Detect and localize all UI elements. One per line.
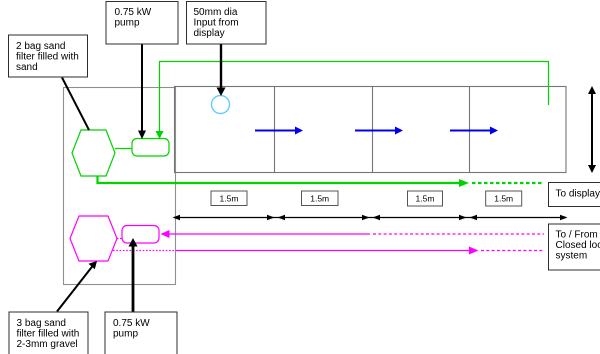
tank (4-cell flume): [175, 87, 567, 173]
svg-text:sand: sand: [16, 62, 38, 73]
wire: dotted connector filter F2 to pump P2: [117, 238, 122, 240]
svg-text:1.5m: 1.5m: [494, 194, 513, 204]
dimension arrowhead pair at 371: [362, 215, 370, 221]
svg-text:1.5m: 1.5m: [220, 194, 239, 204]
tank divider 2: [372, 87, 374, 173]
sand filter F2 (hexagon): [70, 216, 117, 261]
wire: magenta supply pipe from closed loop: [168, 233, 370, 235]
label box: 3 bag sand filter: [9, 312, 88, 354]
dimension arrowhead pair at 468: [459, 215, 467, 221]
wire: magenta dotted pipe from filter F2: [113, 250, 176, 252]
svg-text:filter filled with: filter filled with: [17, 329, 80, 340]
dimension label box 4: [486, 191, 522, 206]
pump P2: [122, 226, 159, 244]
callout pointer: 3 bag sand filter: [57, 266, 93, 312]
dimension label box 3: [408, 191, 443, 206]
callout pointer: 2 bag sand filter: [62, 78, 89, 131]
svg-text:0.75 kW: 0.75 kW: [115, 7, 152, 18]
wire: magenta dashed return continuation: [481, 250, 543, 252]
svg-text:To / From: To / From: [556, 230, 598, 241]
green arrowhead to display: [459, 179, 469, 187]
svg-text:Closed loop: Closed loop: [556, 240, 600, 251]
label box: 0.75 kW pump top: [106, 2, 178, 45]
svg-text:1.5m: 1.5m: [416, 194, 435, 204]
svg-text:3 bag sand: 3 bag sand: [17, 318, 67, 329]
tank divider 1: [274, 87, 276, 173]
callout pointer: 50mm dia input: [220, 44, 222, 88]
label box: 50mm dia input from display: [187, 2, 267, 45]
wire: green delivery pipe to display: [98, 176, 461, 183]
sand filter F1 (hexagon): [72, 130, 115, 176]
label box: To / From closed loop system: [549, 224, 600, 270]
svg-text:pump: pump: [115, 18, 140, 29]
tank divider 3: [469, 87, 471, 173]
inlet port circle: [212, 96, 230, 114]
svg-text:50mm dia: 50mm dia: [194, 7, 238, 18]
dimension label box 1: [211, 191, 247, 206]
svg-text:filter filled with: filter filled with: [16, 52, 79, 63]
svg-text:1.5m: 1.5m: [310, 194, 329, 204]
flow arrow 1: [255, 127, 303, 135]
svg-text:pump: pump: [113, 329, 138, 340]
callout pointer: 0.75 kW pump bottom: [132, 245, 135, 312]
svg-text:2 bag sand: 2 bag sand: [16, 41, 66, 52]
pump P1: [132, 139, 169, 157]
wire: magenta dashed supply continuation: [373, 233, 544, 235]
magenta arrowhead to closed loop: [469, 247, 479, 255]
svg-text:Input from: Input from: [194, 18, 239, 29]
flow arrow 3: [450, 127, 498, 135]
flow arrow 2: [355, 127, 403, 135]
depth double arrow: [588, 86, 596, 173]
magenta arrowhead into pump P2: [161, 230, 170, 238]
wire: magenta return pipe to closed loop: [176, 250, 470, 252]
callout pointer: 0.75 kW pump top: [141, 44, 143, 131]
green arrowhead into pump P1: [156, 131, 164, 139]
svg-text:2-3mm gravel: 2-3mm gravel: [17, 339, 78, 350]
dimension line: [174, 217, 566, 219]
wire: green dashed continuation to display: [472, 182, 543, 184]
label box: To display: [549, 183, 600, 207]
label box: 0.75 kW pump bottom: [105, 312, 177, 354]
svg-text:display: display: [194, 28, 225, 39]
svg-text:0.75 kW: 0.75 kW: [113, 318, 150, 329]
dimension arrowhead right end: [560, 215, 568, 221]
equipment enclosure rectangle: [64, 88, 176, 285]
wire: green suction pipe from tank cell 4 to pump P1: [160, 62, 549, 132]
label box: 2 bag sand filter: [9, 35, 88, 77]
svg-text:To display: To display: [556, 189, 600, 200]
wire: filter F1 to pump P1: [115, 148, 132, 150]
dimension arrowhead left end: [173, 215, 181, 221]
dimension arrowhead pair at 276: [267, 215, 275, 221]
dimension label box 2: [302, 191, 339, 206]
svg-text:system: system: [556, 251, 588, 262]
